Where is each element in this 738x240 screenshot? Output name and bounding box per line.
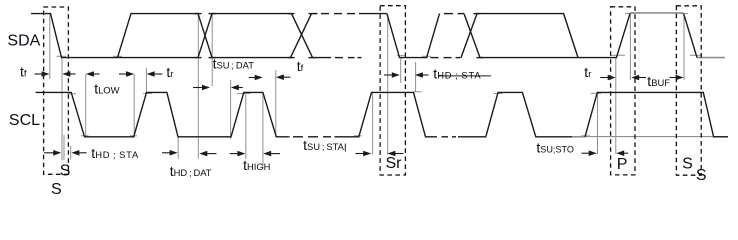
svg-text:S: S — [696, 167, 707, 184]
svg-text:S: S — [51, 181, 62, 198]
svg-text:Sr: Sr — [386, 155, 403, 172]
svg-text:SCL: SCL — [9, 112, 40, 129]
svg-text:S: S — [682, 155, 693, 172]
svg-text:S: S — [60, 162, 71, 179]
svg-text:SDA: SDA — [7, 32, 40, 49]
svg-text:P: P — [617, 156, 628, 173]
